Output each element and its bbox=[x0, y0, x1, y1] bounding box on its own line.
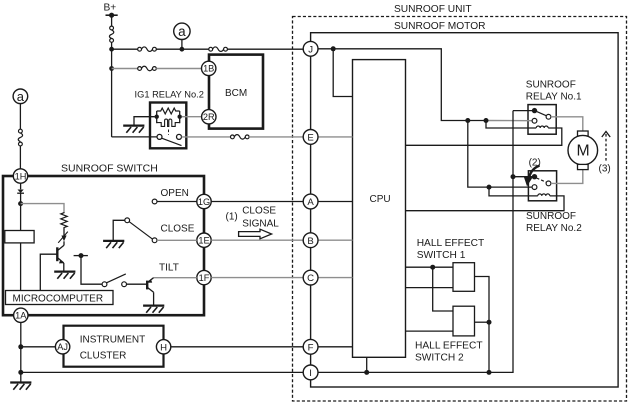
tilt switch arm bbox=[107, 274, 126, 283]
wire to relay2 coil bbox=[489, 187, 533, 196]
node junction under connector a bbox=[180, 47, 185, 52]
connector C bbox=[303, 270, 318, 285]
wire CPU to hall switch 1 bottom bbox=[406, 287, 454, 289]
node junction 1A / AJ bbox=[18, 344, 23, 349]
wire fuse F5 to connector E bbox=[249, 136, 303, 138]
B+ power terminal bbox=[104, 3, 118, 18]
ground G2 (open/close pivot) bbox=[103, 241, 124, 248]
svg-text:A: A bbox=[307, 197, 314, 208]
svg-text:SUNROOF: SUNROOF bbox=[526, 80, 576, 91]
wire E into CPU bbox=[318, 136, 353, 138]
svg-text:CLUSTER: CLUSTER bbox=[80, 350, 127, 361]
HALL EFFECT SWITCH 2 box bbox=[415, 306, 483, 363]
svg-text:(3): (3) bbox=[599, 164, 611, 175]
wire1 segment fuse F3 to connector J bbox=[227, 48, 303, 50]
fuse F6 (vertical, above 1H) bbox=[18, 129, 22, 146]
wire hall switch 2 return bbox=[475, 321, 490, 323]
relay1 internal: arm contact circle bbox=[546, 114, 551, 119]
relay2 internal: lower contact circle bbox=[532, 185, 537, 190]
fuse F2 (wire to J) bbox=[138, 47, 157, 52]
svg-text:HALL EFFECT: HALL EFFECT bbox=[417, 238, 485, 249]
svg-text:HALL EFFECT: HALL EFFECT bbox=[415, 341, 483, 352]
wire CPU to hall switch 2 bottom bbox=[406, 330, 454, 332]
ground G1 (IG1 relay) bbox=[123, 126, 144, 133]
relay2 internal: arm (dash-dot) bbox=[537, 178, 547, 182]
wire CPU to hall switch 1 top bbox=[406, 266, 454, 268]
ground G4 (transistor Q2) bbox=[143, 306, 164, 313]
SUNROOF MOTOR solid enclosure bbox=[311, 21, 618, 387]
wire 1F to C to CPU bbox=[211, 277, 352, 279]
pin 1H on sunroof switch bbox=[13, 169, 27, 183]
svg-text:a: a bbox=[17, 89, 25, 104]
connector F bbox=[303, 339, 318, 354]
svg-text:OPEN: OPEN bbox=[161, 188, 189, 199]
wire relay2 output to motor bbox=[551, 170, 583, 184]
node junction at J bbox=[331, 46, 336, 51]
node junction B+ / wire1 bbox=[109, 47, 114, 52]
close contact bbox=[152, 238, 157, 243]
switch arm open/close bbox=[129, 222, 152, 240]
BCM module bbox=[209, 55, 263, 129]
svg-text:E: E bbox=[307, 133, 313, 144]
wire1 segment to fuse F2 bbox=[112, 48, 138, 50]
wire pivot to ground G2 bbox=[113, 220, 125, 240]
svg-text:IG1 RELAY No.2: IG1 RELAY No.2 bbox=[135, 90, 204, 100]
svg-text:SUNROOF: SUNROOF bbox=[526, 211, 576, 222]
svg-text:1E: 1E bbox=[198, 236, 209, 246]
svg-text:B: B bbox=[307, 236, 313, 247]
fuse F1 (vertical, below B+) bbox=[109, 26, 113, 42]
wire Q1 base to microcomputer bbox=[40, 254, 57, 290]
svg-text:SUNROOF SWITCH: SUNROOF SWITCH bbox=[61, 163, 158, 175]
wire H to connector F bbox=[171, 346, 303, 348]
relay1 internal: coil bbox=[533, 126, 556, 128]
node junction relay2 pivot tap bbox=[511, 174, 516, 179]
wire hall switch 1 return bbox=[475, 277, 490, 373]
wire J junction into CPU bbox=[333, 49, 352, 97]
svg-text:BCM: BCM bbox=[225, 88, 247, 99]
fuse F4 (wire to 1B) bbox=[138, 66, 157, 71]
svg-text:F: F bbox=[308, 342, 314, 353]
wire tilt contact to Q2 base bbox=[127, 283, 147, 285]
connector a (left) bbox=[13, 89, 28, 104]
(1) CLOSE SIGNAL annotation bbox=[226, 206, 280, 239]
wire stem from connector a bbox=[181, 40, 183, 50]
node junction B+ / wire2 bbox=[109, 66, 114, 71]
svg-text:AJ: AJ bbox=[57, 342, 68, 352]
fuse F5 (wire to E) bbox=[231, 135, 250, 140]
svg-text:C: C bbox=[307, 273, 314, 284]
svg-text:H: H bbox=[160, 342, 167, 353]
MICROCOMPUTER box bbox=[6, 291, 114, 305]
node junction below diode bbox=[18, 201, 23, 206]
pin 1E on sunroof switch bbox=[197, 233, 211, 247]
wire 1G to A to CPU bbox=[211, 201, 352, 203]
resistor R1 (zigzag vertical) bbox=[61, 212, 67, 228]
wire tap down to tilt switch bbox=[81, 256, 102, 285]
signal arrow into transistor Q1 bbox=[58, 228, 68, 243]
wire B+ vertical feed bbox=[111, 15, 113, 26]
wire junction to AJ bbox=[21, 346, 56, 348]
wire B+ drop into IG1 relay switch bbox=[112, 136, 157, 138]
svg-text:1A: 1A bbox=[15, 311, 27, 321]
IG1 relay internal: armature dashed link bbox=[168, 130, 170, 136]
svg-text:SWITCH 2: SWITCH 2 bbox=[415, 353, 464, 364]
IG1 RELAY No.2 box bbox=[135, 90, 204, 149]
node junction 1A / ground bus bbox=[18, 370, 23, 375]
wire2 segment to fuse F4 bbox=[112, 68, 138, 70]
wire relay1 coil return to CPU bbox=[406, 128, 562, 145]
svg-text:M: M bbox=[577, 142, 590, 159]
svg-text:1H: 1H bbox=[15, 171, 27, 181]
wire1 segment fuse F2 to junction a bbox=[156, 48, 182, 50]
diode D1 (below 1H) bbox=[17, 190, 24, 194]
svg-text:I: I bbox=[309, 368, 312, 379]
connector a (top) bbox=[174, 23, 190, 39]
transistor Q2 (tilt) bbox=[147, 278, 153, 305]
wire a-left stem down bbox=[19, 104, 21, 130]
connector B bbox=[303, 233, 318, 248]
wire close contact to 1E bbox=[157, 239, 197, 241]
node junction hall return bbox=[487, 370, 492, 375]
switch pivot (open/close) bbox=[125, 218, 130, 223]
wire block to microcomputer bbox=[20, 243, 22, 291]
svg-text:RELAY No.2: RELAY No.2 bbox=[526, 223, 582, 234]
IG1 relay internal: resistor (zigzag top branch) bbox=[157, 108, 180, 114]
node junction relay feed 1 bbox=[465, 118, 470, 123]
svg-text:TILT: TILT bbox=[159, 263, 179, 274]
node junction CPU ground drop bbox=[364, 370, 369, 375]
motor M1 bbox=[568, 131, 598, 170]
svg-text:2R: 2R bbox=[203, 112, 215, 122]
svg-text:CLOSE: CLOSE bbox=[161, 224, 195, 235]
node tap stub for tilt switch bbox=[74, 253, 88, 258]
SUNROOF UNIT dashed enclosure bbox=[293, 4, 627, 401]
node junction hall2 return bbox=[487, 320, 492, 325]
svg-text:J: J bbox=[308, 44, 313, 55]
wire to relay1 coil bbox=[486, 121, 533, 129]
ground G5 (main) bbox=[10, 383, 31, 390]
wire junction to pullup resistor bbox=[21, 204, 64, 212]
node junction relay2 coil tap bbox=[487, 185, 492, 190]
IG1 relay internal: switch arm bbox=[162, 138, 182, 145]
connector I bbox=[303, 365, 318, 380]
SUNROOF RELAY No.1 box bbox=[526, 80, 582, 135]
CPU U1 bbox=[353, 60, 406, 358]
tilt switch contact right bbox=[122, 282, 127, 287]
svg-text:CLOSE: CLOSE bbox=[242, 206, 276, 217]
wire fuse F6 to pin 1H bbox=[19, 146, 21, 169]
wire IG1 coil to pin 2R bbox=[182, 116, 202, 118]
wire CPU bottom to ground bus bbox=[366, 357, 368, 372]
connector E bbox=[303, 130, 318, 145]
open contact bbox=[152, 199, 157, 204]
pin 1G on sunroof switch bbox=[197, 194, 211, 208]
IG1 relay internal: coil (bottom branch loops) bbox=[157, 119, 180, 126]
svg-text:MICROCOMPUTER: MICROCOMPUTER bbox=[13, 293, 104, 304]
wire relay2 coil return to CPU bbox=[406, 196, 565, 211]
svg-text:(1): (1) bbox=[226, 212, 238, 223]
ground G3 (transistor Q1) bbox=[54, 272, 75, 279]
IG1 relay internal: switch contact right bbox=[177, 134, 182, 139]
IG1 relay pin dot right bbox=[178, 115, 182, 119]
wire F into CPU bbox=[318, 346, 353, 348]
tilt switch contact left bbox=[102, 282, 107, 287]
INSTRUMENT CLUSTER box bbox=[64, 326, 164, 367]
SUNROOF SWITCH box bbox=[3, 163, 204, 316]
pin 1A on sunroof switch bbox=[14, 308, 28, 322]
svg-text:INSTRUMENT: INSTRUMENT bbox=[80, 334, 146, 345]
svg-text:SWITCH 1: SWITCH 1 bbox=[417, 250, 466, 261]
IG1 relay internal: switch contact left bbox=[157, 134, 162, 139]
wire open contact to 1G bbox=[157, 201, 197, 203]
wire IG1 switch output to fuse F5 bbox=[182, 136, 231, 138]
svg-text:SIGNAL: SIGNAL bbox=[242, 219, 279, 230]
connector A bbox=[303, 194, 318, 209]
wire relay1 fixed contact bbox=[513, 110, 535, 112]
wire B+ vertical to junctions bbox=[111, 42, 113, 137]
svg-text:SUNROOF UNIT: SUNROOF UNIT bbox=[394, 4, 472, 15]
component block (resistor pack) in series bbox=[5, 231, 34, 243]
fuse F3 (before J) bbox=[209, 47, 228, 52]
node junction hall feed bbox=[430, 265, 435, 270]
IG1 relay internal: coil rails bbox=[157, 111, 180, 123]
transistor Q1 (NPN, left) bbox=[57, 241, 64, 270]
wire IG1 coil to ground bbox=[134, 117, 155, 125]
wire I ground bus right bbox=[318, 111, 513, 373]
svg-text:1B: 1B bbox=[203, 64, 214, 74]
wire feed down to relay2 bbox=[468, 121, 532, 188]
svg-text:a: a bbox=[178, 24, 186, 39]
wire hall feed to hall switch 2 top bbox=[433, 267, 453, 311]
svg-text:1F: 1F bbox=[199, 273, 210, 283]
pin 1F on sunroof switch bbox=[197, 270, 211, 284]
wire pivot tap to relay2 bbox=[513, 176, 535, 178]
wire 1A drop bbox=[20, 323, 22, 382]
svg-text:RELAY No.1: RELAY No.1 bbox=[526, 92, 582, 103]
pin 1B on BCM bbox=[202, 61, 216, 75]
relay1 internal: fixed contact dot bbox=[532, 108, 537, 113]
relay2 internal: coil bbox=[533, 194, 556, 196]
relay2 internal: pivot dot bbox=[532, 174, 537, 179]
(3) dashed direction arrow bbox=[599, 132, 611, 175]
IG1 relay pin dot left bbox=[155, 115, 159, 119]
wire relay1 output to motor bbox=[551, 117, 583, 131]
wire Q2 collector to 1F bbox=[154, 277, 197, 279]
pin 2R on BCM bbox=[202, 110, 216, 124]
pin AJ on instrument cluster bbox=[55, 340, 69, 354]
svg-text:SUNROOF MOTOR: SUNROOF MOTOR bbox=[394, 21, 486, 32]
svg-text:B+: B+ bbox=[104, 3, 117, 14]
SUNROOF RELAY No.2 box bbox=[526, 171, 582, 234]
wire2 segment fuse F4 to pin 1B bbox=[156, 68, 202, 70]
wire 1E to B to CPU bbox=[211, 239, 352, 241]
wire1 segment to fuse F3 bbox=[182, 48, 209, 50]
wire junction to connector I bbox=[21, 371, 304, 373]
node junction relay feed 2 bbox=[484, 118, 489, 123]
svg-text:1G: 1G bbox=[198, 197, 210, 207]
wire J to CPU branch bbox=[318, 49, 486, 121]
(2) annotation with curved arrow bbox=[524, 157, 541, 186]
relay1 internal: switch arm bbox=[535, 111, 547, 116]
connector J bbox=[303, 41, 318, 56]
HALL EFFECT SWITCH 1 box bbox=[417, 238, 485, 291]
pin H on instrument cluster bbox=[156, 340, 170, 354]
relay2 internal: arm contact circle bbox=[546, 181, 551, 186]
svg-text:CPU: CPU bbox=[370, 194, 391, 205]
relay1 internal: lower contact circle bbox=[532, 118, 537, 123]
wire diode to junction bbox=[20, 193, 22, 230]
wire 1H internal drop bbox=[20, 183, 22, 189]
